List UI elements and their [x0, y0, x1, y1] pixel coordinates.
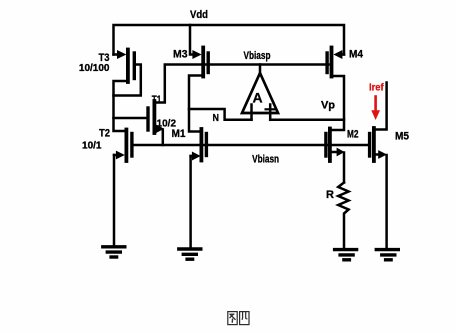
M4 channel bar — [330, 48, 334, 77]
svg-text:Vbiasp: Vbiasp — [244, 50, 271, 62]
wire M4 source tail — [340, 53, 344, 56]
M1 channel bar — [199, 129, 203, 161]
M3 source arrow — [192, 50, 201, 59]
M4 gate bar — [325, 53, 328, 73]
T1 source arrow — [156, 124, 165, 133]
T1 channel bar — [152, 101, 156, 133]
svg-text:A: A — [252, 90, 262, 106]
svg-text:M5: M5 — [395, 131, 409, 143]
ground (below R) — [335, 250, 357, 260]
wire M4 drain down Vp column to M2 drain jog — [331, 76, 344, 130]
M4 source arrow — [333, 50, 342, 59]
wire M2 source tail — [332, 151, 338, 154]
svg-text:Vbiasn: Vbiasn — [252, 154, 279, 166]
T3 gate bar — [133, 53, 136, 79]
svg-text:Vp: Vp — [321, 100, 335, 112]
transistor M4 (PMOS, mirrored) — [327, 48, 344, 77]
op-amp minus input lead — [250, 105, 253, 120]
transistor T3 (diode-connected PMOS, 10/100) — [114, 50, 141, 96]
transistor M1 (NMOS) — [191, 129, 207, 247]
wire M2 source down to resistor — [343, 153, 346, 183]
transistor M2 (NMOS, mirrored) — [326, 129, 345, 183]
T1 gate bar — [146, 108, 149, 130]
svg-text:R: R — [326, 189, 334, 201]
T3 source arrow — [117, 50, 126, 59]
Iref current arrow (red) — [371, 97, 380, 121]
wire T3 source lead — [114, 53, 119, 56]
wire T1 gate lead — [114, 117, 147, 120]
svg-text:Iref: Iref — [369, 83, 384, 94]
caption 四 (drawn glyph) — [240, 312, 249, 325]
caption 图 (drawn glyph) — [228, 312, 237, 325]
M2 source arrow — [337, 148, 345, 157]
M1 source arrow — [192, 152, 201, 161]
svg-text:N: N — [212, 113, 219, 124]
op-amp plus mark arm — [266, 108, 276, 110]
wire T3 gate-to-drain hook — [114, 65, 141, 96]
wire Vdd rail with left and right drops — [114, 25, 345, 55]
wire M1 source tail — [191, 155, 194, 158]
svg-text:Vdd: Vdd — [190, 9, 208, 21]
T3 channel bar — [126, 50, 130, 83]
M3 gate bar — [206, 53, 209, 73]
wire M1 source to ground — [189, 156, 192, 247]
T2 gate bar — [130, 134, 133, 157]
resistor R zigzag — [338, 183, 348, 249]
wire Vbiasn rail from T2 gate to M5 gate — [133, 144, 370, 147]
transistor M5 (NMOS output) — [370, 83, 387, 249]
M3 channel bar — [201, 48, 205, 77]
wire T1 source to Vbiasn — [162, 130, 165, 146]
wire T2 source tail — [114, 154, 117, 157]
transistor M3 (PMOS) — [190, 25, 208, 77]
svg-text:T1: T1 — [152, 94, 162, 106]
T2 channel bar — [125, 130, 129, 162]
wire Vp link from plus input to M4/M2 column — [270, 119, 344, 122]
svg-text:T2: T2 — [99, 128, 110, 140]
svg-text:M3: M3 — [173, 49, 188, 61]
svg-text:10/1: 10/1 — [82, 141, 102, 152]
wire T1 drain up and Vbiasp rail to M4 gate — [156, 65, 329, 103]
ground (M1 source) — [179, 249, 201, 259]
wire M5 drain up (open terminal) — [376, 83, 387, 130]
op-amp plus input lead — [269, 105, 272, 120]
ground (M5 source) — [376, 250, 398, 260]
node N branch wire to op-amp minus input — [189, 109, 252, 120]
svg-text:M4: M4 — [349, 49, 364, 61]
M2 channel bar — [328, 129, 332, 162]
T2 source arrow — [116, 151, 125, 160]
svg-text:M2: M2 — [347, 129, 359, 141]
op-amp U1 triangle — [242, 73, 278, 113]
M1 gate bar — [205, 134, 208, 156]
ground (T2 source) — [103, 247, 125, 257]
wire M3 drain down to node N and M1 drain jog — [189, 76, 202, 132]
M5 gate bar — [368, 134, 371, 157]
M2 gate bar — [324, 134, 327, 157]
op-amp output stub to Vbiasp — [259, 65, 262, 74]
transistor T1 (NMOS 10/2) — [148, 101, 164, 145]
wire T2 source to ground — [113, 155, 116, 245]
wire M5 source to ground — [385, 155, 388, 248]
M5 channel bar — [372, 128, 376, 161]
M5 source arrow — [378, 150, 387, 159]
wire T3 drain down-rail to T2 drain jog — [114, 81, 127, 131]
transistor T2 (NMOS 10/1) — [114, 130, 132, 246]
svg-text:M1: M1 — [172, 128, 186, 140]
wire M5 source tail — [376, 153, 380, 156]
wire M3 source from Vdd — [190, 25, 194, 55]
svg-text:10/100: 10/100 — [79, 63, 110, 74]
